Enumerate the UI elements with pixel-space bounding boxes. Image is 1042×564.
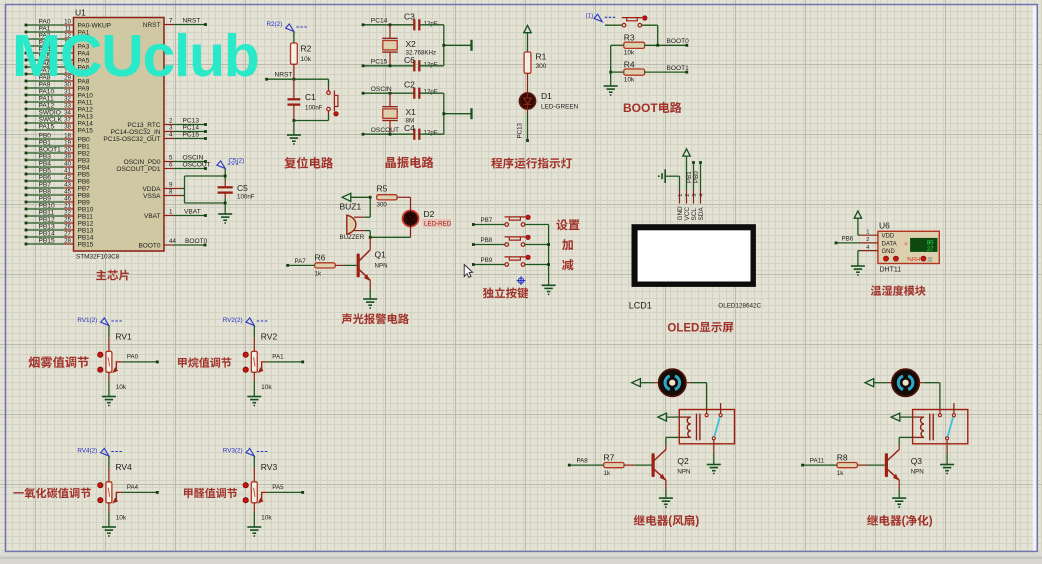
ground OLED: [658, 169, 680, 183]
resistor R3: [624, 33, 645, 57]
svg-text:BOOT: BOOT: [623, 101, 658, 115]
wire PA5 net: [267, 484, 304, 494]
svg-text:U6: U6: [879, 221, 890, 231]
ground Q2: [659, 497, 673, 499]
resistor R7: [594, 452, 624, 477]
capacitor C5: [218, 183, 255, 201]
svg-text:1k: 1k: [315, 271, 322, 278]
pin PA7 (17) wire: [25, 67, 90, 78]
svg-text:): ): [929, 515, 933, 528]
wire R5 to D2: [397, 197, 410, 210]
svg-text:RV1: RV1: [115, 331, 132, 341]
title 继电器(风扇): [634, 515, 700, 528]
wire RV3 bottom: [253, 503, 255, 527]
svg-text:PA4: PA4: [127, 484, 139, 491]
svg-text:PC15: PC15: [371, 59, 388, 66]
svg-text:80: 80: [927, 240, 934, 246]
svg-text:PB7: PB7: [78, 185, 91, 192]
svg-text:DHT11: DHT11: [880, 266, 902, 273]
wire Q2 emitter to ground: [665, 480, 667, 498]
svg-text:GND: GND: [677, 206, 684, 221]
power terminal motor Q2: [632, 379, 660, 387]
potentiometer RV4: [98, 462, 132, 522]
power terminal alarm: [342, 193, 371, 201]
title 声光报警电路: [342, 313, 409, 324]
svg-text:PA11: PA11: [78, 99, 93, 106]
wire VDDA/VSSA to C5: [174, 176, 226, 203]
motor 继电器(风扇): [659, 369, 686, 396]
svg-text:RV3(2): RV3(2): [223, 448, 243, 455]
svg-text:10k: 10k: [116, 514, 127, 521]
svg-text:25: 25: [64, 216, 71, 223]
wire RV3 top: [253, 456, 255, 482]
pin PB10 (21) wire: [25, 202, 94, 213]
pin PB0 (18) wire: [25, 132, 91, 143]
svg-text:C4: C4: [404, 123, 415, 133]
wire motor to relay: [685, 383, 706, 414]
svg-text:43: 43: [64, 181, 71, 188]
svg-text:R2: R2: [301, 44, 312, 54]
pin PB9 (46) wire: [25, 195, 91, 206]
ground RV1: [102, 396, 116, 398]
svg-text:100nF: 100nF: [237, 194, 255, 201]
svg-text:RV1(2): RV1(2): [77, 317, 97, 324]
svg-text:GND: GND: [882, 249, 896, 255]
svg-text:(: (: [902, 515, 906, 528]
svg-text:4: 4: [169, 132, 173, 139]
svg-text:10k: 10k: [116, 384, 127, 391]
svg-text:37: 37: [64, 116, 71, 123]
pin PB5 (41) wire: [25, 167, 91, 178]
wire R2 top stub: [293, 32, 295, 44]
svg-text:PB1: PB1: [39, 139, 52, 146]
wire PB9 to bus: [525, 264, 549, 266]
title 晶振电路: [386, 157, 434, 169]
power terminal relay coil: [658, 413, 680, 421]
svg-text:PB8: PB8: [39, 188, 52, 195]
svg-text:5: 5: [169, 155, 173, 162]
svg-text:C2: C2: [404, 80, 415, 90]
svg-text:PB0: PB0: [78, 136, 91, 143]
title 程序运行指示灯: [491, 158, 572, 169]
svg-text:21: 21: [64, 202, 71, 209]
pin PB8 (45) wire: [25, 188, 91, 199]
push button reset: [327, 91, 338, 117]
wire R1 to D1: [527, 73, 529, 93]
wire buzzer top to rail: [365, 197, 370, 217]
svg-text:LCD1: LCD1: [629, 300, 652, 310]
wire OLED GND pin: [679, 176, 681, 203]
svg-text:PA14: PA14: [78, 120, 94, 127]
svg-text:300: 300: [377, 202, 388, 209]
svg-text:31: 31: [64, 88, 71, 95]
pin OSCIN_PD0 (5) wire: [124, 155, 207, 166]
svg-text:PB5: PB5: [39, 167, 52, 174]
wire RV4 bottom: [108, 503, 110, 527]
ground bar terminal: [470, 40, 472, 51]
svg-text:10k: 10k: [624, 50, 635, 57]
push button PB7: [505, 215, 531, 226]
svg-text:40: 40: [64, 160, 71, 167]
title 甲醛值调节: [184, 488, 237, 498]
svg-text:DATA: DATA: [882, 241, 897, 247]
pin PA11 (32) wire: [25, 95, 93, 106]
svg-text:PB0: PB0: [39, 132, 52, 139]
svg-text:VDDA: VDDA: [142, 186, 161, 193]
pin PA0-WKUP (10) wire: [25, 18, 111, 29]
svg-text:PB9: PB9: [481, 257, 493, 264]
svg-text:PB11: PB11: [78, 213, 94, 220]
svg-text:38: 38: [64, 123, 71, 130]
svg-text:10k: 10k: [261, 384, 272, 391]
ground Q1: [363, 298, 377, 300]
svg-text:R2(2): R2(2): [267, 21, 283, 28]
wire label marker RV3(2): [223, 448, 267, 456]
svg-text:10k: 10k: [261, 514, 272, 521]
wire crystal right rail: [442, 93, 471, 134]
svg-text:PA10: PA10: [78, 92, 94, 99]
svg-text:R5: R5: [377, 183, 388, 193]
wire R2 to NRST node: [293, 64, 296, 80]
svg-text:PA15: PA15: [78, 127, 94, 134]
wire R3 left rail: [609, 45, 623, 85]
transistor Q3: [886, 450, 923, 481]
display LCD1 OLED frame: [632, 224, 756, 287]
label 加: [562, 239, 573, 250]
potentiometer RV3: [243, 462, 277, 522]
svg-text:R7: R7: [604, 452, 615, 462]
pin VDDA (9) wire: [142, 182, 173, 193]
svg-text:NPN: NPN: [677, 468, 690, 475]
svg-text:MCUclub: MCUclub: [12, 23, 259, 89]
svg-text:3: 3: [169, 125, 173, 132]
OLED pin labels: [677, 194, 705, 221]
svg-text:PB10: PB10: [78, 206, 94, 213]
svg-text:300: 300: [536, 63, 547, 70]
wire PB8 to bus: [525, 244, 549, 246]
svg-text:PC13: PC13: [183, 118, 200, 125]
pin PC14-OSC32_IN (3) wire: [111, 125, 207, 136]
svg-text:PB0: PB0: [693, 171, 700, 183]
wire Q1 emitter to ground: [369, 280, 371, 298]
svg-text:PB8: PB8: [481, 237, 493, 244]
svg-text:1k: 1k: [604, 470, 611, 477]
wire C1 bottom to button: [293, 119, 329, 122]
capacitor C1: [288, 79, 323, 120]
svg-text:BUZZER: BUZZER: [340, 234, 365, 241]
svg-text:PA5: PA5: [272, 484, 284, 491]
svg-text:(1): (1): [586, 13, 594, 20]
title 复位电路: [284, 157, 333, 169]
wire label marker RV1(2): [77, 317, 122, 325]
svg-text:OSCIN_PD0: OSCIN_PD0: [124, 159, 161, 166]
wire PC14 net: [362, 18, 415, 27]
svg-text:27: 27: [64, 230, 71, 237]
svg-text:(: (: [668, 515, 672, 528]
crystal X2: [382, 25, 436, 66]
svg-text:RV4(2): RV4(2): [77, 448, 97, 455]
svg-text:1: 1: [866, 229, 869, 235]
pin PA9 (30) wire: [25, 81, 90, 92]
ground below C5: [218, 214, 232, 224]
wire PA8 net: [568, 458, 594, 467]
wire crystal right rail: [442, 25, 471, 66]
wire relay common to ground: [946, 440, 948, 464]
wire D1 to PC13 net: [517, 109, 529, 142]
svg-text:VBAT: VBAT: [184, 209, 201, 216]
sensor U6 DHT11: [861, 221, 940, 264]
wire PB6 net to DATA: [835, 236, 861, 245]
ground relay: [940, 464, 954, 466]
svg-text:D2: D2: [424, 209, 435, 219]
svg-text:PA7: PA7: [295, 258, 307, 265]
svg-text:PA10: PA10: [39, 88, 55, 95]
ground RV2: [247, 396, 261, 398]
svg-text:PB5: PB5: [78, 171, 91, 178]
wire button reset branch: [328, 79, 330, 120]
svg-text:2: 2: [685, 194, 691, 197]
title OLED显示屏: [667, 322, 733, 334]
svg-text:PB8: PB8: [78, 192, 91, 199]
pin VSSA (8) wire: [143, 189, 173, 200]
resistor R1: [524, 51, 547, 73]
svg-text:C1: C1: [305, 92, 316, 102]
wire C3 right: [420, 24, 444, 26]
svg-text:1k: 1k: [837, 470, 844, 477]
svg-text:VSSA: VSSA: [143, 193, 161, 200]
svg-text:C6: C6: [404, 55, 415, 65]
wire coil to Q2 collector: [666, 437, 679, 449]
crystal X1: [382, 93, 416, 134]
svg-text:PB12: PB12: [39, 216, 55, 223]
pin PB15 (28) wire: [25, 237, 94, 248]
pin PA2 (12) wire: [25, 32, 90, 43]
pin PB7 (43) wire: [25, 181, 91, 192]
wire PA11 net: [801, 458, 827, 467]
power terminal relay coil: [891, 413, 913, 421]
wire buzzer bottom to node: [365, 231, 370, 238]
svg-text:D1: D1: [541, 91, 552, 101]
ground DHT11: [851, 265, 865, 267]
ground BOOT divider: [604, 85, 618, 87]
svg-text:Q1: Q1: [375, 250, 387, 260]
svg-text:LED-GREEN: LED-GREEN: [541, 104, 579, 111]
svg-text:): ): [695, 515, 699, 528]
wire PA4 net: [122, 484, 159, 494]
svg-text:SWCLK: SWCLK: [39, 116, 63, 123]
bottom window strip: [0, 552, 1042, 559]
pin PB6 (42) wire: [25, 174, 91, 185]
wire OSCIN net: [362, 86, 415, 95]
svg-text:27: 27: [927, 247, 934, 253]
chip title 主芯片: [96, 270, 129, 281]
svg-text:12pF: 12pF: [424, 89, 438, 96]
power terminal motor Q3: [865, 379, 893, 387]
wire PB7 net: [472, 217, 505, 226]
svg-text:R4: R4: [624, 60, 635, 70]
wire R6 to Q1 base: [335, 264, 356, 266]
title 烟雾值调节: [29, 356, 89, 368]
wire PB9 net: [472, 257, 505, 266]
pin PB14 (27) wire: [25, 230, 94, 241]
svg-text:39: 39: [64, 153, 71, 160]
svg-text:SWDIO: SWDIO: [39, 109, 61, 116]
wire label marker RV2(2): [223, 317, 267, 325]
svg-text:RV2(2): RV2(2): [223, 317, 243, 324]
wire Q3 emitter to ground: [898, 480, 900, 498]
svg-text:PC14-OSC32_IN: PC14-OSC32_IN: [111, 129, 161, 136]
label 减: [562, 259, 573, 270]
svg-text:12pF: 12pF: [424, 130, 438, 137]
wire PA7 net: [286, 258, 314, 267]
wire R7 to Q2 base: [625, 464, 652, 466]
svg-text:PB11: PB11: [39, 209, 55, 216]
pin PA4 (14) wire: [25, 46, 90, 57]
svg-text:PB14: PB14: [39, 230, 55, 237]
microcontroller U1 STM32F103C8 body: [74, 8, 165, 261]
wire PB8 net: [472, 237, 505, 246]
svg-text:28: 28: [64, 237, 71, 244]
svg-text:33: 33: [64, 102, 71, 109]
pin PA15 (38) wire: [25, 123, 94, 134]
wire label marker RV4(2): [77, 448, 122, 456]
push button BOOT0: [622, 16, 647, 27]
wire label marker (1): [586, 13, 616, 22]
pin PB11 (22) wire: [25, 209, 94, 220]
svg-text:STM32F103C8: STM32F103C8: [76, 253, 120, 260]
svg-text:R6: R6: [315, 253, 326, 263]
svg-text:C3: C3: [404, 11, 415, 21]
svg-text:PB15: PB15: [78, 241, 94, 248]
svg-text:OSCOUT: OSCOUT: [183, 162, 211, 169]
svg-text:PB14: PB14: [78, 234, 94, 241]
ground below C1: [287, 121, 301, 145]
svg-text:PA13: PA13: [78, 113, 94, 120]
title 继电器(净化): [867, 515, 933, 528]
wire coil to Q3 collector: [899, 437, 912, 449]
svg-text:PB6: PB6: [78, 178, 91, 185]
resistor R6: [315, 253, 336, 278]
wire RV4 top: [108, 456, 110, 482]
svg-text:PA11: PA11: [810, 458, 825, 465]
svg-text:OLED128642C: OLED128642C: [718, 303, 761, 310]
wire PC15 net: [362, 59, 415, 68]
motor 继电器(净化): [892, 369, 919, 396]
pin PB13 (26) wire: [25, 223, 94, 234]
svg-text:PB1: PB1: [686, 171, 693, 183]
svg-text:VCC: VCC: [684, 207, 691, 221]
pin OSCOUT_PD1 (6) wire: [116, 162, 210, 173]
svg-text:SCL: SCL: [691, 208, 698, 221]
potentiometer RV2: [243, 331, 277, 391]
svg-text:9: 9: [169, 182, 173, 189]
svg-text:NPN: NPN: [911, 468, 924, 475]
svg-text:PB2: PB2: [78, 150, 91, 157]
svg-text:C5: C5: [237, 183, 248, 193]
wire PA0 net: [122, 354, 159, 364]
svg-text:3: 3: [692, 194, 698, 197]
push button PB8: [505, 235, 531, 246]
svg-text:PC14: PC14: [371, 18, 388, 25]
label 度 grey: [927, 257, 932, 262]
capacitor C4: [404, 123, 438, 140]
wire relay common to ground: [713, 440, 715, 464]
pin PC15-OSC32_OUT (4) wire: [103, 132, 206, 143]
wire label marker C5(2): [217, 158, 244, 169]
wire BOOT1 net: [645, 65, 690, 74]
svg-text:PB9: PB9: [78, 199, 91, 206]
svg-text:LED-RED: LED-RED: [424, 221, 452, 228]
svg-text:>: >: [904, 241, 907, 247]
svg-text:PC13: PC13: [517, 122, 524, 138]
wire D2 bottom: [369, 227, 411, 239]
svg-text:PB4: PB4: [39, 160, 52, 167]
svg-text:PA0: PA0: [127, 354, 139, 361]
origin marker: [517, 276, 526, 285]
wire RV1 bottom: [108, 372, 110, 396]
svg-text:PB3: PB3: [39, 153, 52, 160]
pin PA12 (33) wire: [25, 102, 94, 113]
wire OSCOUT net: [362, 127, 415, 136]
wire C5 net stub: [224, 169, 227, 214]
pin PC13_RTC (2) wire: [127, 118, 207, 129]
wire label marker R2(2): [267, 21, 307, 32]
svg-text:RV4: RV4: [115, 462, 132, 472]
svg-text:32: 32: [64, 95, 71, 102]
svg-text:PA8: PA8: [577, 458, 589, 465]
buzzer BUZ1: [340, 202, 365, 242]
power terminal above R1: [524, 25, 531, 52]
svg-text:19: 19: [64, 139, 71, 146]
mouse cursor: [464, 265, 472, 278]
svg-text:BOOT1: BOOT1: [39, 146, 62, 153]
svg-text:OLED: OLED: [667, 322, 699, 334]
svg-text:PB7: PB7: [39, 181, 52, 188]
capacitor C6: [404, 55, 438, 72]
title 温湿度模块: [871, 285, 926, 296]
relay RL 继电器(净化): [913, 403, 968, 444]
title BOOT电路: [623, 101, 682, 115]
svg-text:44: 44: [169, 238, 176, 245]
wire PA1 net: [267, 354, 304, 364]
wire motor to relay: [919, 383, 940, 414]
title 一氧化碳值调节: [13, 488, 90, 499]
power terminal OLED VCC: [683, 149, 690, 204]
push button PB9: [505, 255, 531, 266]
svg-text:10k: 10k: [624, 76, 635, 83]
pin PB4 (40) wire: [25, 160, 91, 171]
capacitor C3: [404, 11, 438, 30]
svg-text:R8: R8: [837, 452, 848, 462]
svg-text:PA1: PA1: [272, 354, 284, 361]
wire BOOT0 net: [645, 38, 690, 47]
wire R8 to Q3 base: [858, 464, 885, 466]
svg-text:20: 20: [64, 146, 71, 153]
pin PA3 (13) wire: [25, 39, 90, 50]
pin PB1 (19) wire: [25, 139, 91, 150]
svg-text:Q3: Q3: [911, 456, 923, 466]
pin NRST (7) wire: [143, 18, 207, 29]
svg-text:BOOT0: BOOT0: [667, 38, 690, 45]
svg-text:PB7: PB7: [481, 217, 493, 224]
svg-text:26: 26: [64, 223, 71, 230]
pin PA5 (15) wire: [25, 53, 90, 64]
svg-text:10k: 10k: [301, 56, 312, 63]
wire BOOT button to R3 node: [642, 25, 658, 45]
svg-text:41: 41: [64, 167, 71, 174]
resistor R5: [377, 183, 398, 208]
potentiometer RV1: [98, 331, 132, 391]
